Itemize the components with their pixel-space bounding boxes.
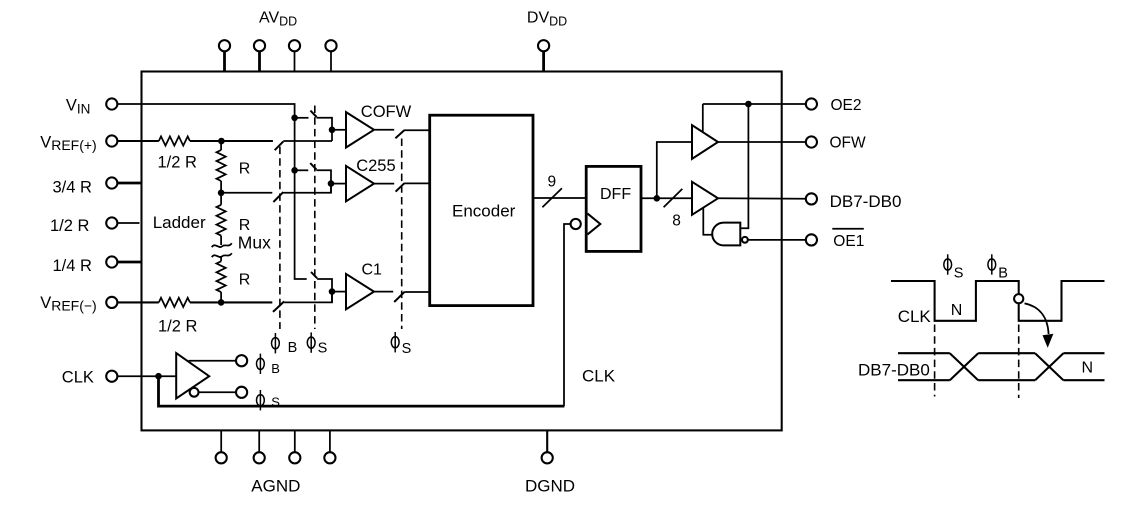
ladder vertical segments xyxy=(220,141,222,302)
junction dot DFF out xyxy=(654,195,661,202)
svg-text:DB7-DB0: DB7-DB0 xyxy=(830,192,902,211)
bus slash 8 xyxy=(664,189,683,207)
resistor 1/2R top xyxy=(159,136,190,145)
wire VREF- to resistor xyxy=(117,301,159,303)
junction dot CLK xyxy=(155,373,162,380)
nand bubble xyxy=(742,237,748,243)
wire OE2 to OFW buffer enable xyxy=(702,104,704,132)
junction dot C1 node xyxy=(329,288,336,295)
svg-text:1/2 R: 1/2 R xyxy=(158,153,198,171)
svg-text:VREF(+): VREF(+) xyxy=(40,133,97,153)
pin DB7-DB0 xyxy=(806,193,817,204)
timing CLK waveform xyxy=(891,281,1105,321)
svg-text:S: S xyxy=(954,266,964,282)
junction dot ladder bottom xyxy=(218,299,225,306)
wire mux VREF- to node xyxy=(284,292,332,303)
bus rails right xyxy=(1063,353,1104,380)
output switch COFW xyxy=(395,130,404,138)
wire COFW node to comparator xyxy=(332,129,346,131)
wire 1/4R stub xyxy=(117,261,142,264)
buffer OFW xyxy=(692,125,718,159)
junction dot COFW node xyxy=(329,127,336,134)
comparator C255 xyxy=(346,166,374,201)
junction dot VIN tap C255 xyxy=(291,167,298,174)
clock buffer inverted bubble xyxy=(190,388,199,397)
wire mux mid to node xyxy=(283,184,331,193)
wire C1 to encoder xyxy=(404,291,430,293)
label phiS dashed mid xyxy=(307,332,315,352)
svg-text:R: R xyxy=(239,272,251,289)
wire C1 out xyxy=(374,291,393,293)
pin AGND1 xyxy=(216,430,227,463)
DFF block xyxy=(586,166,641,251)
wire OE1 xyxy=(748,239,806,241)
wire DFF to DB buffer xyxy=(641,197,692,199)
nand gate mirrored xyxy=(712,223,740,246)
chip outline box xyxy=(142,72,782,431)
pin OE2 xyxy=(806,98,817,109)
output switch C1 xyxy=(394,292,404,302)
wire VREF+ to resistor xyxy=(117,140,159,142)
mux switch VREF+ xyxy=(275,141,284,150)
timing arrow head xyxy=(1043,334,1054,348)
label phiB out xyxy=(257,354,265,374)
svg-text:1/4 R: 1/4 R xyxy=(53,257,93,275)
pin 1/4R xyxy=(106,256,117,267)
wire C255 node to comparator xyxy=(331,183,346,185)
pin VREF+ xyxy=(106,135,117,146)
mux switch VREF- xyxy=(273,301,284,312)
dashed control line phiS mid xyxy=(314,106,316,330)
svg-text:VREF(−): VREF(−) xyxy=(40,294,97,314)
svg-text:COFW: COFW xyxy=(361,103,412,121)
clock buffer xyxy=(176,353,209,398)
svg-text:B: B xyxy=(288,340,298,356)
svg-text:C1: C1 xyxy=(362,261,383,278)
pin phiB xyxy=(236,355,247,366)
svg-text:S: S xyxy=(271,395,280,410)
junction dot ladder top xyxy=(218,138,225,145)
comparator C1 xyxy=(346,274,374,309)
wire resistor to ladder to mux switch xyxy=(190,301,272,303)
wire resistor to ladder to mux switch xyxy=(190,140,273,142)
timing arrow curve xyxy=(1025,303,1049,334)
pin DVDD xyxy=(538,40,549,71)
buffer DB xyxy=(692,182,718,215)
wire switch to COFW node xyxy=(317,118,333,141)
wire phiB out xyxy=(189,360,237,362)
DFF clock edge symbol xyxy=(588,214,601,235)
overline OE1 xyxy=(832,228,864,230)
DFF clock bubble xyxy=(571,219,581,229)
svg-text:S: S xyxy=(402,341,412,357)
resistor R2 ladder xyxy=(217,205,226,236)
pin AGND4 xyxy=(324,430,335,463)
junction dot OE2 xyxy=(745,101,752,108)
pin AGND2 xyxy=(254,430,265,463)
pin VREF- xyxy=(106,297,117,308)
wire 3/4R stub xyxy=(117,182,142,185)
label timing phiB xyxy=(988,254,996,274)
wire CLK thick run xyxy=(159,376,565,406)
svg-text:CLK: CLK xyxy=(582,367,616,386)
junction dot VIN tap COFW xyxy=(291,115,298,122)
ladder break squiggle xyxy=(212,243,232,257)
bus crossover X2 xyxy=(1035,353,1063,380)
svg-text:N: N xyxy=(951,302,963,319)
pin phiS xyxy=(236,387,247,398)
wire COFW out xyxy=(374,129,394,131)
pin AVDD3 xyxy=(289,40,300,71)
pin 3/4R xyxy=(106,177,117,188)
svg-text:B: B xyxy=(271,361,280,376)
comparator COFW xyxy=(346,112,374,147)
sampling switch COFW xyxy=(310,111,316,117)
wire encoder to DFF xyxy=(533,197,586,199)
svg-text:9: 9 xyxy=(548,173,557,190)
bus rails middle xyxy=(978,353,1035,380)
svg-text:OE2: OE2 xyxy=(831,97,862,114)
wire VIN to bus xyxy=(117,104,307,279)
timing dashed line 2 xyxy=(1018,325,1020,399)
svg-text:R: R xyxy=(239,217,251,234)
wire VIN tap COFW xyxy=(295,117,309,119)
svg-text:S: S xyxy=(318,341,328,357)
wire ladder mid tap xyxy=(221,192,272,194)
bus slash 9 xyxy=(542,188,562,207)
pin AGND3 xyxy=(289,430,300,463)
dashed control line phiB xyxy=(279,147,281,329)
encoder block xyxy=(430,115,533,305)
timing dashed line 1 xyxy=(934,325,936,397)
bus crossover X1 xyxy=(950,353,978,380)
wire CLK to DFF xyxy=(564,224,571,406)
label phiS dashed right xyxy=(391,332,399,352)
wire C1 node to comparator xyxy=(332,291,346,293)
pin OE1 xyxy=(806,234,817,245)
resistor 1/2R bottom xyxy=(159,298,190,307)
wire DFF out up to OFW buffer xyxy=(657,142,692,198)
resistor R3 ladder xyxy=(217,261,226,292)
mux switch mid xyxy=(273,192,283,202)
output switch C255 xyxy=(396,183,405,191)
wire switch to C255 node xyxy=(316,170,331,193)
pin VIN xyxy=(106,98,117,109)
wire OFW out xyxy=(718,141,806,143)
svg-text:Ladder: Ladder xyxy=(153,213,206,232)
wire phiS out xyxy=(199,391,237,393)
svg-text:B: B xyxy=(998,266,1008,282)
junction dot ladder mid xyxy=(218,190,225,197)
timing circle on falling edge xyxy=(1014,294,1023,303)
wire COFW to encoder xyxy=(404,129,430,131)
sampling switch C255 xyxy=(310,163,316,169)
svg-text:DFF: DFF xyxy=(600,186,631,203)
svg-text:N: N xyxy=(1082,360,1094,377)
bus rails left xyxy=(898,353,950,380)
svg-text:Encoder: Encoder xyxy=(452,202,516,221)
svg-text:3/4 R: 3/4 R xyxy=(53,178,93,196)
wire mux VREF+ to node xyxy=(283,140,332,142)
resistor R1 ladder xyxy=(217,150,226,181)
svg-text:OE1: OE1 xyxy=(833,233,864,250)
wire CLK in xyxy=(117,375,176,377)
svg-text:CLK: CLK xyxy=(62,368,94,386)
pin AVDD4 xyxy=(325,40,336,71)
svg-text:AGND: AGND xyxy=(251,477,300,496)
svg-text:OFW: OFW xyxy=(830,134,867,151)
svg-text:DGND: DGND xyxy=(525,477,575,496)
svg-text:1/2 R: 1/2 R xyxy=(50,217,90,235)
wire DB out xyxy=(718,197,806,199)
svg-text:Mux: Mux xyxy=(238,233,271,253)
svg-text:1/2 R: 1/2 R xyxy=(158,318,198,336)
pin DGND xyxy=(542,430,553,463)
wire OE2 down to NAND input xyxy=(740,104,748,228)
label phiS out xyxy=(257,390,265,410)
label timing phiS xyxy=(944,254,952,274)
pin AVDD2 xyxy=(254,40,265,71)
svg-text:R: R xyxy=(239,161,251,178)
wire nand output to DB buffer enable xyxy=(703,208,712,235)
wire OE2 xyxy=(703,103,806,105)
wire C255 to encoder xyxy=(404,182,430,184)
pin OFW xyxy=(806,136,817,147)
junction dot C255 node xyxy=(328,180,335,187)
wire 1/2R stub xyxy=(117,222,139,224)
svg-text:8: 8 xyxy=(672,212,681,229)
sampling switch C1 xyxy=(311,272,317,278)
svg-text:DB7-DB0: DB7-DB0 xyxy=(858,360,930,379)
dashed control line phiS right xyxy=(401,139,403,330)
pin AVDD1 xyxy=(219,40,230,71)
svg-text:C255: C255 xyxy=(356,157,395,175)
wire VIN tap C255 xyxy=(295,169,309,171)
pin 1/2R xyxy=(106,217,117,228)
label phiB dashed xyxy=(272,333,280,353)
wire C255 out xyxy=(374,183,394,185)
wire switch to C1 node xyxy=(317,279,332,302)
pin CLK xyxy=(106,371,117,382)
svg-text:CLK: CLK xyxy=(898,307,932,326)
